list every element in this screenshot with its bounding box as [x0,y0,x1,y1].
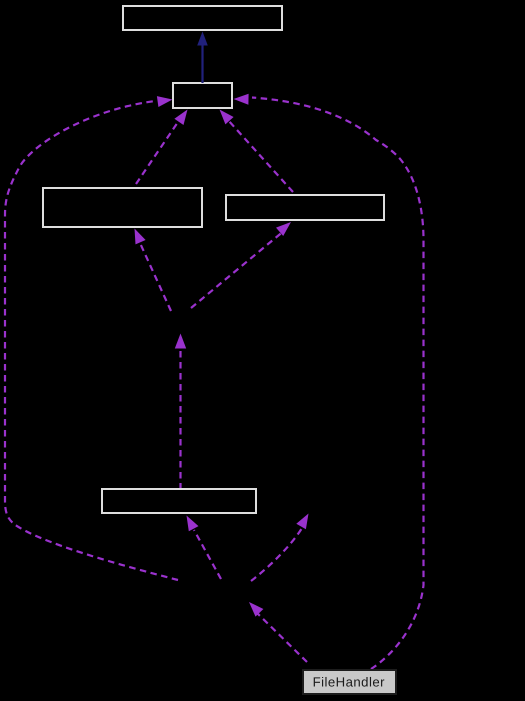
svg-text:FileHandler: FileHandler [313,675,386,690]
